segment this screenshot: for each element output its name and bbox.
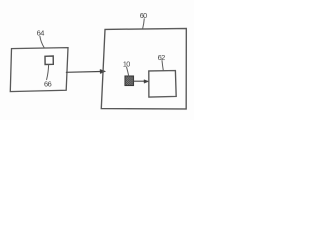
svg-text:60: 60 [140, 11, 147, 20]
svg-text:64: 64 [37, 28, 45, 37]
svg-text:66: 66 [44, 80, 52, 89]
leader line for label 62 [162, 61, 163, 71]
svg-text:10: 10 [123, 59, 130, 68]
component box 66 (small square inside block 64) [45, 56, 53, 65]
box 62 (inner square) [149, 71, 176, 98]
wire: arrow from block 64 to block 60 [66, 70, 100, 73]
leader line for label 10 [127, 67, 129, 76]
leader line for label 64 [40, 36, 44, 47]
svg-text:62: 62 [158, 53, 166, 62]
block 60 (right rectangle) [101, 28, 186, 109]
device 10 (hatched square) [125, 76, 134, 86]
leader line for label 60 [143, 19, 145, 29]
block 64 (left rectangle) [10, 48, 68, 92]
wire: arrow from device 10 to box 62 [134, 80, 145, 82]
leader line for label 66 [47, 65, 49, 80]
